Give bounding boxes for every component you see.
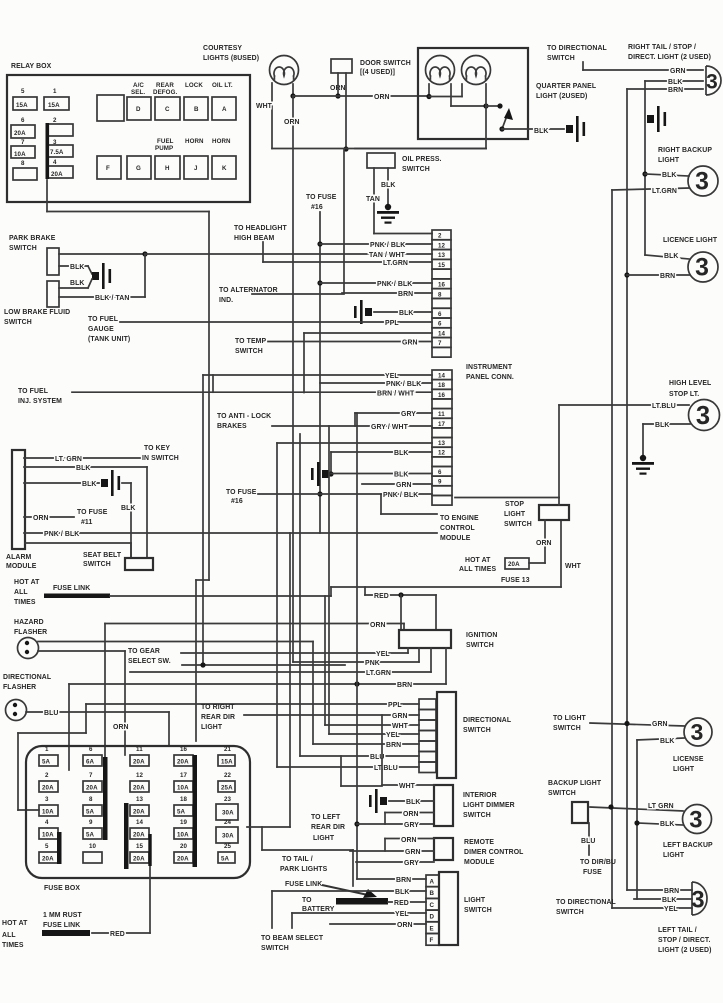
svg-text:BRN: BRN xyxy=(397,682,412,689)
svg-text:SELECT SW.: SELECT SW. xyxy=(128,658,171,665)
svg-text:15: 15 xyxy=(136,843,144,850)
svg-text:LIGHT: LIGHT xyxy=(673,766,695,773)
svg-text:HIGH LEVEL: HIGH LEVEL xyxy=(669,380,711,387)
svg-text:BLK: BLK xyxy=(394,472,408,479)
svg-text:PNK / BLK: PNK / BLK xyxy=(383,492,418,499)
svg-text:ORN: ORN xyxy=(113,724,129,731)
svg-text:WHT: WHT xyxy=(399,783,416,790)
ground + BLK pin 6 xyxy=(354,300,372,324)
bus left xyxy=(276,443,278,767)
svg-text:BLK: BLK xyxy=(121,505,135,512)
svg-text:#11: #11 xyxy=(81,519,92,526)
svg-text:10A: 10A xyxy=(42,809,54,816)
svg-text:DIMER CONTROL: DIMER CONTROL xyxy=(464,849,523,856)
svg-text:LIGHT: LIGHT xyxy=(201,724,223,731)
svg-text:FUEL: FUEL xyxy=(157,138,174,145)
relay G xyxy=(127,156,151,179)
svg-text:INTERIOR: INTERIOR xyxy=(463,792,497,799)
wire GRN xyxy=(350,850,434,852)
svg-text:14: 14 xyxy=(136,819,144,826)
jog xyxy=(330,587,332,596)
wire LT.GRN xyxy=(130,671,431,673)
svg-text:DIRECTIONAL: DIRECTIONAL xyxy=(463,717,511,724)
fuse box xyxy=(26,746,250,878)
svg-text:DIRECT. LIGHT (2 USED): DIRECT. LIGHT (2 USED) xyxy=(628,54,711,61)
wire BRN xyxy=(624,272,629,277)
svg-text:TAN / WHT: TAN / WHT xyxy=(369,252,406,259)
svg-text:SWITCH: SWITCH xyxy=(547,55,575,62)
svg-text:19: 19 xyxy=(180,819,188,826)
svg-text:GRY / WHT: GRY / WHT xyxy=(371,424,409,431)
remote dimer control module xyxy=(434,838,453,860)
wire from quarter panel down xyxy=(355,148,486,150)
svg-text:TO BEAM SELECT: TO BEAM SELECT xyxy=(261,935,324,942)
svg-text:E: E xyxy=(430,925,434,932)
wire BRN pin 8 xyxy=(342,292,432,294)
svg-text:ORN: ORN xyxy=(374,94,390,101)
svg-text:1: 1 xyxy=(53,88,57,95)
svg-text:20A: 20A xyxy=(177,856,189,863)
svg-text:HOT AT: HOT AT xyxy=(465,557,491,564)
wire xyxy=(182,664,345,666)
svg-text:HIGH BEAM: HIGH BEAM xyxy=(234,235,274,242)
svg-text:BRN / WHT: BRN / WHT xyxy=(377,391,415,398)
wire YEL light switch xyxy=(292,912,426,914)
svg-text:GRY: GRY xyxy=(404,822,419,829)
svg-text:C: C xyxy=(165,106,170,113)
svg-text:BLK: BLK xyxy=(662,172,676,179)
wire BLK pin 12 xyxy=(331,451,432,453)
svg-text:5A: 5A xyxy=(42,759,51,766)
svg-text:18: 18 xyxy=(438,382,446,389)
svg-text:REAR: REAR xyxy=(156,82,174,89)
svg-text:14: 14 xyxy=(438,330,446,337)
wire BRN xyxy=(627,889,692,891)
wire BLK xyxy=(59,265,88,267)
wire YEL xyxy=(329,733,419,735)
wire BLK seat belt xyxy=(122,482,131,484)
wire RED xyxy=(364,587,366,595)
wire BLK + ground xyxy=(643,423,690,425)
svg-text:TO RIGHT: TO RIGHT xyxy=(201,704,235,711)
wire GRN xyxy=(582,62,584,70)
svg-text:LT. GRN: LT. GRN xyxy=(55,456,82,463)
svg-text:REAR DIR: REAR DIR xyxy=(311,824,345,831)
wire WHT xyxy=(325,724,419,726)
svg-text:REAR DIR: REAR DIR xyxy=(201,714,235,721)
svg-text:30A: 30A xyxy=(222,833,234,840)
svg-text:6A: 6A xyxy=(86,759,95,766)
wire BLK xyxy=(24,466,147,468)
svg-text:ORN: ORN xyxy=(401,837,417,844)
wire jog to fuse 16 feed xyxy=(196,579,209,581)
svg-text:BACKUP LIGHT: BACKUP LIGHT xyxy=(548,780,602,787)
svg-text:6: 6 xyxy=(438,321,442,328)
svg-text:ORN: ORN xyxy=(370,622,386,629)
svg-text:16: 16 xyxy=(180,746,188,753)
svg-text:1 MM RUST: 1 MM RUST xyxy=(43,912,82,919)
svg-text:HAZARD: HAZARD xyxy=(14,619,44,626)
svg-text:DEFOG.: DEFOG. xyxy=(153,89,178,96)
wire PNK/BLK pin 18 xyxy=(320,382,432,384)
svg-text:LIGHT (2 USED): LIGHT (2 USED) xyxy=(658,947,711,954)
wire WHT xyxy=(382,784,434,786)
svg-text:FUSE: FUSE xyxy=(583,869,602,876)
svg-text:2: 2 xyxy=(45,772,49,779)
ground xyxy=(647,106,666,132)
BLK bus down xyxy=(644,81,646,255)
svg-text:PNK / BLK: PNK / BLK xyxy=(377,281,412,288)
svg-text:4: 4 xyxy=(45,819,49,826)
wire BLU xyxy=(300,755,419,757)
svg-text:10: 10 xyxy=(89,843,97,850)
svg-text:DOOR SWITCH: DOOR SWITCH xyxy=(360,60,411,67)
svg-text:23: 23 xyxy=(224,796,232,803)
wire PPL xyxy=(86,703,419,705)
svg-text:SWITCH: SWITCH xyxy=(463,727,491,734)
wire ORN xyxy=(544,520,546,563)
svg-text:SWITCH: SWITCH xyxy=(464,907,492,914)
svg-text:20A: 20A xyxy=(508,561,520,568)
svg-text:15: 15 xyxy=(438,262,446,269)
bus from YEL line down to gear select xyxy=(202,375,204,665)
svg-text:3: 3 xyxy=(689,806,702,833)
svg-text:FUSE BOX: FUSE BOX xyxy=(44,885,80,892)
svg-text:GRN: GRN xyxy=(392,713,408,720)
svg-text:PPL: PPL xyxy=(388,702,402,709)
svg-text:CONTROL: CONTROL xyxy=(440,525,475,532)
svg-text:TO LIGHT: TO LIGHT xyxy=(553,715,587,722)
svg-text:20A: 20A xyxy=(133,809,145,816)
svg-text:ORN: ORN xyxy=(33,515,49,522)
bus bars xyxy=(103,757,108,840)
svg-text:20A: 20A xyxy=(133,856,145,863)
wire xyxy=(337,73,339,96)
svg-text:BLK: BLK xyxy=(534,128,548,135)
svg-text:INSTRUMENT: INSTRUMENT xyxy=(466,364,513,371)
svg-text:13: 13 xyxy=(438,252,446,259)
svg-text:GRN: GRN xyxy=(405,849,421,856)
wire BLK to ground xyxy=(387,168,389,205)
svg-text:BLK: BLK xyxy=(660,821,674,828)
svg-text:RIGHT BACKUP: RIGHT BACKUP xyxy=(658,147,712,154)
svg-text:BRN: BRN xyxy=(664,888,679,895)
svg-text:12: 12 xyxy=(438,450,446,457)
svg-text:5A: 5A xyxy=(177,809,186,816)
svg-text:FLASHER: FLASHER xyxy=(3,684,36,691)
svg-text:3: 3 xyxy=(706,71,718,94)
svg-text:LICENCE LIGHT: LICENCE LIGHT xyxy=(663,237,718,244)
svg-text:GRN: GRN xyxy=(396,482,412,489)
svg-text:ORN: ORN xyxy=(284,119,300,126)
svg-text:TAN: TAN xyxy=(366,196,380,203)
svg-text:COURTESY: COURTESY xyxy=(203,45,242,52)
wire xyxy=(345,73,347,149)
svg-text:20: 20 xyxy=(180,843,188,850)
wire YEL pin 14 xyxy=(203,374,432,376)
LT GRN bus down xyxy=(611,190,613,908)
svg-text:D: D xyxy=(430,914,435,921)
svg-text:BRN: BRN xyxy=(398,291,413,298)
svg-text:OIL PRESS.: OIL PRESS. xyxy=(402,156,442,163)
svg-text:IND.: IND. xyxy=(219,297,233,304)
svg-text:TO GEAR: TO GEAR xyxy=(128,648,160,655)
svg-text:5A: 5A xyxy=(86,809,95,816)
svg-text:RED: RED xyxy=(374,593,389,600)
svg-text:LT.GRN: LT.GRN xyxy=(383,260,408,267)
svg-text:A: A xyxy=(430,879,435,886)
svg-text:D: D xyxy=(136,106,141,113)
wire TAN xyxy=(373,168,375,234)
wire BLK xyxy=(645,80,703,82)
svg-text:IN SWITCH: IN SWITCH xyxy=(142,455,179,462)
svg-text:BLU: BLU xyxy=(581,838,595,845)
hazard lower wire / ORN to fuse 11 xyxy=(38,650,125,652)
ignition switch xyxy=(399,630,451,648)
svg-text:BLU: BLU xyxy=(44,710,58,717)
wire BRN xyxy=(357,878,426,880)
svg-text:16: 16 xyxy=(438,282,446,289)
wire ORN xyxy=(105,623,404,625)
wire BRN/WHT pin 16 / fuel inj xyxy=(72,391,432,393)
svg-text:5: 5 xyxy=(45,843,49,850)
wire LT.BLU xyxy=(277,766,419,768)
svg-text:BLK / TAN: BLK / TAN xyxy=(95,295,129,302)
svg-text:MODULE: MODULE xyxy=(440,535,471,542)
svg-text:3: 3 xyxy=(691,887,704,914)
svg-text:18: 18 xyxy=(180,796,188,803)
wire ORN to fuse 11 xyxy=(24,516,74,518)
svg-text:SWITCH: SWITCH xyxy=(4,319,32,326)
svg-text:3: 3 xyxy=(691,719,704,745)
svg-text:INJ. SYSTEM: INJ. SYSTEM xyxy=(18,398,62,405)
svg-text:TO LEFT: TO LEFT xyxy=(311,814,341,821)
svg-text:LEFT BACKUP: LEFT BACKUP xyxy=(663,842,713,849)
svg-text:12: 12 xyxy=(438,242,446,249)
wire pin 14 xyxy=(304,332,432,334)
svg-text:C: C xyxy=(430,902,435,909)
svg-text:LIGHT: LIGHT xyxy=(504,511,526,518)
svg-text:DIRECTIONAL: DIRECTIONAL xyxy=(3,674,51,681)
svg-text:TO DIR/BU: TO DIR/BU xyxy=(580,859,616,866)
svg-text:12: 12 xyxy=(136,772,144,779)
bulb 2 xyxy=(462,56,491,85)
svg-text:TO DIRECTIONAL: TO DIRECTIONAL xyxy=(556,899,616,906)
wire PNK xyxy=(293,661,419,663)
svg-text:F: F xyxy=(106,165,110,172)
svg-text:SWITCH: SWITCH xyxy=(548,790,576,797)
svg-text:LIGHT: LIGHT xyxy=(464,897,486,904)
wire BLK ground xyxy=(24,482,99,484)
svg-text:SWITCH: SWITCH xyxy=(556,909,584,916)
svg-text:16: 16 xyxy=(438,392,446,399)
svg-text:ALARM: ALARM xyxy=(6,554,32,561)
svg-text:REMOTE: REMOTE xyxy=(464,839,494,846)
svg-text:TO TAIL /: TO TAIL / xyxy=(282,856,313,863)
svg-text:A/C: A/C xyxy=(133,82,144,89)
svg-text:MODULE: MODULE xyxy=(6,563,37,570)
svg-text:TO DIRECTIONAL: TO DIRECTIONAL xyxy=(547,45,607,52)
svg-text:HORN: HORN xyxy=(212,138,231,145)
directional switch conn xyxy=(419,699,436,710)
svg-text:5A: 5A xyxy=(221,856,230,863)
wire BLK xyxy=(637,738,684,740)
svg-text:J: J xyxy=(194,165,198,172)
door switch xyxy=(331,59,352,73)
door jamb switch symbol xyxy=(486,105,499,107)
wire BLK xyxy=(645,255,689,259)
svg-text:TO TEMP: TO TEMP xyxy=(235,338,267,345)
svg-text:20A: 20A xyxy=(42,785,54,792)
svg-text:TO HEADLIGHT: TO HEADLIGHT xyxy=(234,225,287,232)
svg-text:BLK: BLK xyxy=(660,738,674,745)
wire PNK/BLK pin 16 xyxy=(320,282,432,284)
svg-text:BATTERY: BATTERY xyxy=(302,906,335,913)
wire LT GRN xyxy=(590,807,683,811)
svg-text:20A: 20A xyxy=(51,171,63,178)
svg-text:LT GRN: LT GRN xyxy=(648,803,674,810)
svg-text:25A: 25A xyxy=(221,785,233,792)
svg-text:#16: #16 xyxy=(231,498,243,505)
feed jog xyxy=(341,785,382,787)
svg-text:RELAY BOX: RELAY BOX xyxy=(11,63,52,70)
svg-text:24: 24 xyxy=(224,819,232,826)
svg-text:BLK: BLK xyxy=(664,253,678,260)
wire PNK/BLK to engine control module xyxy=(24,532,437,534)
svg-text:SWITCH: SWITCH xyxy=(402,166,430,173)
wire BLU xyxy=(26,711,169,713)
svg-text:RIGHT TAIL / STOP /: RIGHT TAIL / STOP / xyxy=(628,44,696,51)
alarm module xyxy=(12,450,25,549)
svg-text:ALL TIMES: ALL TIMES xyxy=(459,566,496,573)
svg-text:6: 6 xyxy=(89,746,93,753)
svg-text:SWITCH: SWITCH xyxy=(553,725,581,732)
svg-text:22: 22 xyxy=(224,772,232,779)
svg-text:BLK: BLK xyxy=(70,280,84,287)
wire BLK xyxy=(634,898,692,900)
svg-text:20A: 20A xyxy=(14,130,26,137)
svg-text:LIGHT: LIGHT xyxy=(658,157,680,164)
svg-text:GRN: GRN xyxy=(652,721,668,728)
wire PNK/BLK pin 12 xyxy=(320,243,432,245)
svg-text:BLK: BLK xyxy=(76,465,90,472)
svg-text:8: 8 xyxy=(21,160,25,167)
svg-text:30A: 30A xyxy=(222,810,234,817)
wire to seat belt xyxy=(25,542,131,544)
wire BLK + ground xyxy=(369,789,387,813)
svg-text:TO FUSE: TO FUSE xyxy=(226,489,257,496)
wire ORN bus xyxy=(292,84,294,96)
svg-text:MODULE: MODULE xyxy=(464,859,495,866)
svg-text:FLASHER: FLASHER xyxy=(14,629,47,636)
svg-text:LIGHT: LIGHT xyxy=(663,852,685,859)
svg-text:HORN: HORN xyxy=(185,138,204,145)
wire BRN xyxy=(69,683,446,685)
svg-text:HOT AT: HOT AT xyxy=(2,920,28,927)
svg-text:25: 25 xyxy=(224,843,232,850)
svg-text:20A: 20A xyxy=(133,785,145,792)
svg-text:2: 2 xyxy=(438,233,442,240)
wire BLK to ground xyxy=(502,128,528,130)
wire BLK xyxy=(272,890,426,892)
svg-text:SEAT BELT: SEAT BELT xyxy=(83,552,122,559)
svg-text:20A: 20A xyxy=(177,759,189,766)
svg-text:BLK: BLK xyxy=(381,182,395,189)
svg-text:7: 7 xyxy=(21,139,25,146)
to tail/park lights wire xyxy=(289,533,291,827)
svg-text:LIGHT DIMMER: LIGHT DIMMER xyxy=(463,802,515,809)
light switch conn xyxy=(426,875,439,887)
svg-text:TIMES: TIMES xyxy=(2,942,24,949)
bus xyxy=(319,212,321,533)
svg-text:B: B xyxy=(430,890,435,897)
wire GRY pin 11 xyxy=(355,412,432,414)
svg-text:IGNITION: IGNITION xyxy=(466,632,497,639)
svg-text:3: 3 xyxy=(695,169,709,196)
svg-text:STOP / DIRECT.: STOP / DIRECT. xyxy=(658,937,710,944)
ground + BLK pin 6 xyxy=(311,462,329,486)
wire BLK/TAN xyxy=(59,296,145,298)
svg-text:ORN: ORN xyxy=(397,922,413,929)
low brake fluid switch xyxy=(47,281,59,307)
svg-text:5A: 5A xyxy=(86,832,95,839)
svg-text:BLK: BLK xyxy=(394,450,408,457)
svg-text:BLK: BLK xyxy=(655,422,669,429)
svg-text:B: B xyxy=(194,106,199,113)
svg-text:9: 9 xyxy=(89,819,93,826)
svg-text:LEFT TAIL /: LEFT TAIL / xyxy=(658,927,697,934)
wire LT.BLU xyxy=(559,404,689,406)
svg-text:PPL: PPL xyxy=(385,320,399,327)
wire from relay box xyxy=(46,180,48,212)
svg-text:BLK: BLK xyxy=(668,79,682,86)
svg-text:10A: 10A xyxy=(177,785,189,792)
wire ORN to quarter panel xyxy=(293,95,429,97)
BRN bus down xyxy=(626,89,628,890)
svg-text:GRN: GRN xyxy=(670,68,686,75)
svg-text:PNK / BLK: PNK / BLK xyxy=(386,381,421,388)
relay blank xyxy=(97,95,124,121)
wire YEL xyxy=(181,652,408,654)
wire pin 13 xyxy=(277,442,432,444)
svg-text:LIGHT: LIGHT xyxy=(313,835,335,842)
svg-text:LT.BLU: LT.BLU xyxy=(652,403,676,410)
svg-text:WHT: WHT xyxy=(256,103,273,110)
svg-text:11: 11 xyxy=(136,746,143,753)
svg-text:H: H xyxy=(165,165,170,172)
svg-text:13: 13 xyxy=(136,796,144,803)
svg-text:LIGHTS (8USED): LIGHTS (8USED) xyxy=(203,55,259,62)
svg-text:YEL: YEL xyxy=(395,911,409,918)
wire ORN xyxy=(385,838,434,840)
svg-text:TO FUEL: TO FUEL xyxy=(18,388,48,395)
door sw return bus xyxy=(343,149,345,293)
ground xyxy=(566,116,585,142)
svg-text:TIMES: TIMES xyxy=(14,599,36,606)
svg-text:PNK: PNK xyxy=(365,660,380,667)
svg-text:FUSE LINK: FUSE LINK xyxy=(285,881,322,888)
svg-text:PANEL CONN.: PANEL CONN. xyxy=(466,374,514,381)
svg-text:GRN: GRN xyxy=(402,340,418,347)
wire BLU xyxy=(588,823,590,855)
svg-text:15A: 15A xyxy=(221,759,233,766)
svg-text:6: 6 xyxy=(438,469,442,476)
bulb 1 xyxy=(426,56,455,85)
svg-text:SWITCH: SWITCH xyxy=(83,561,111,568)
svg-text:LT.BLU: LT.BLU xyxy=(374,765,398,772)
svg-text:7.5A: 7.5A xyxy=(50,149,64,156)
svg-text:SEL.: SEL. xyxy=(131,89,145,96)
